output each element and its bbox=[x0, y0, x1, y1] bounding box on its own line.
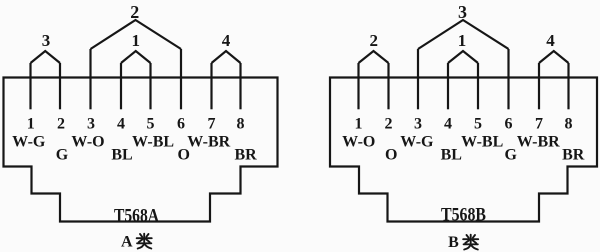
svg-text:W-BL: W-BL bbox=[461, 134, 503, 151]
svg-text:W-G: W-G bbox=[12, 134, 46, 151]
svg-text:8: 8 bbox=[565, 116, 573, 133]
svg-text:G: G bbox=[56, 147, 69, 164]
svg-text:1: 1 bbox=[355, 116, 363, 133]
svg-text:2: 2 bbox=[57, 116, 65, 133]
svg-text:O: O bbox=[385, 147, 397, 164]
svg-text:4: 4 bbox=[222, 31, 231, 50]
svg-text:W-BR: W-BR bbox=[517, 134, 560, 151]
svg-text:BL: BL bbox=[441, 147, 462, 164]
svg-text:1: 1 bbox=[131, 31, 140, 50]
svg-text:A: A bbox=[121, 234, 133, 251]
svg-text:5: 5 bbox=[474, 116, 482, 133]
svg-text:B: B bbox=[448, 234, 459, 251]
svg-text:6: 6 bbox=[177, 116, 185, 133]
svg-text:7: 7 bbox=[535, 116, 543, 133]
svg-text:W-O: W-O bbox=[71, 134, 104, 151]
svg-text:G: G bbox=[505, 147, 518, 164]
svg-text:2: 2 bbox=[385, 116, 393, 133]
svg-text:W-O: W-O bbox=[342, 134, 375, 151]
svg-text:6: 6 bbox=[505, 116, 513, 133]
svg-text:T568B: T568B bbox=[441, 205, 486, 226]
svg-text:8: 8 bbox=[237, 116, 245, 133]
svg-text:BR: BR bbox=[562, 147, 585, 164]
svg-text:1: 1 bbox=[27, 116, 35, 133]
svg-text:5: 5 bbox=[147, 116, 155, 133]
svg-text:T568A: T568A bbox=[114, 206, 159, 227]
svg-text:W-BR: W-BR bbox=[187, 134, 230, 151]
svg-text:3: 3 bbox=[87, 116, 95, 133]
svg-text:7: 7 bbox=[208, 116, 216, 133]
svg-text:BR: BR bbox=[234, 147, 257, 164]
svg-text:W-BL: W-BL bbox=[132, 134, 174, 151]
svg-text:3: 3 bbox=[414, 116, 422, 133]
svg-text:4: 4 bbox=[117, 116, 125, 133]
svg-text:4: 4 bbox=[444, 116, 452, 133]
svg-text:2: 2 bbox=[369, 31, 378, 50]
svg-text:4: 4 bbox=[546, 31, 555, 50]
svg-text:3: 3 bbox=[458, 2, 467, 22]
svg-text:W-G: W-G bbox=[400, 134, 434, 151]
svg-text:BL: BL bbox=[111, 147, 132, 164]
svg-text:1: 1 bbox=[458, 31, 467, 50]
svg-text:3: 3 bbox=[42, 31, 51, 50]
svg-text:2: 2 bbox=[130, 2, 139, 22]
svg-text:O: O bbox=[178, 147, 190, 164]
